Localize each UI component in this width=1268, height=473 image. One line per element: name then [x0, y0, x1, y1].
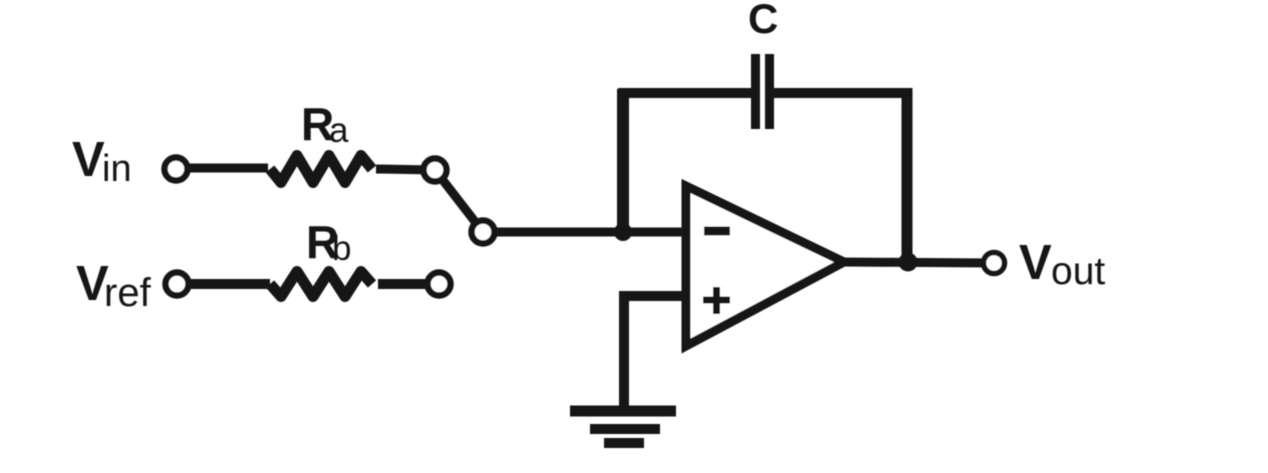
op-amp U1 [686, 186, 844, 346]
wire feedback top left segment [618, 88, 755, 98]
terminal Vin [165, 158, 188, 181]
switch pole contact [472, 221, 495, 244]
op-amp inverting pin marker (minus) [704, 227, 730, 236]
wire Rb to switch throw contact [378, 279, 439, 289]
capacitor C [756, 54, 770, 129]
wire Vref terminal to resistor Rb [177, 279, 270, 289]
wire switch pole to inverting node [483, 228, 624, 237]
switch throw contact (Rb side) [428, 273, 451, 296]
resistor Rb [270, 272, 372, 297]
op-amp non-inverting pin marker (plus) [703, 287, 730, 314]
node: inverting input junction [614, 223, 632, 241]
resistor Ra [270, 156, 372, 183]
label Vout [1019, 236, 1105, 293]
svg-text:out: out [1051, 250, 1105, 293]
wire op-amp non-inverting input to ground [624, 296, 688, 407]
terminal Vout [984, 253, 1005, 274]
svg-text:C: C [748, 0, 778, 42]
wire Vin terminal to resistor Ra [176, 164, 268, 173]
ground [570, 411, 676, 443]
svg-text:in: in [102, 148, 132, 190]
svg-text:a: a [329, 111, 349, 150]
label Rb [306, 216, 351, 268]
label C [748, 0, 778, 42]
label Ra [301, 98, 349, 150]
switch throw contact (Ra side) [424, 159, 447, 182]
terminal Vref [166, 273, 189, 296]
svg-text:V: V [1019, 236, 1052, 290]
wire feedback drop (right vertical) [902, 88, 913, 262]
wire feedback riser (left vertical) [617, 89, 629, 236]
wire node to op-amp inverting input [623, 228, 688, 237]
label Vin [72, 133, 132, 190]
switch arm [435, 170, 483, 232]
wire op-amp output [840, 262, 994, 263]
node: output junction [899, 253, 918, 272]
wire feedback top right segment [770, 88, 912, 98]
wire Ra to switch throw contact [376, 169, 435, 170]
svg-text:V: V [72, 133, 105, 187]
svg-text:b: b [332, 229, 351, 268]
label Vref [76, 257, 152, 315]
svg-text:ref: ref [104, 271, 152, 315]
